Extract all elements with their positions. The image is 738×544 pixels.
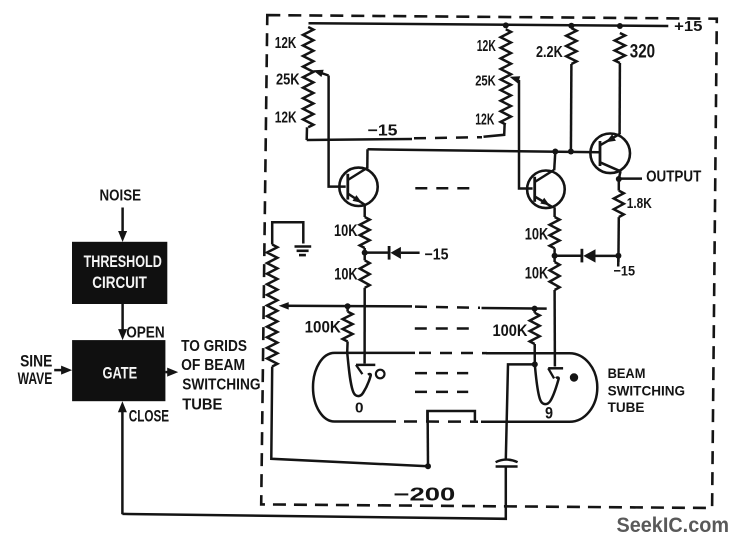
tube bottom edge dashes: [404, 420, 478, 423]
wire -15 row left segment: [307, 139, 412, 140]
wire right column down to tube electrode: [553, 290, 556, 367]
12K label left top: [275, 35, 297, 52]
resistor chain 12K 25K 12K right: [501, 29, 511, 124]
wire left column down to tube electrode: [363, 288, 366, 364]
OPEN label: [126, 325, 165, 342]
wire arrow gate output to grids: [165, 368, 178, 377]
NOISE label: [100, 188, 142, 205]
potentiometer left border: [267, 245, 277, 367]
10K label left upper: [334, 221, 358, 240]
svg-text:CLOSE: CLOSE: [129, 406, 169, 425]
resistor 2.2K: [566, 28, 576, 151]
svg-text:SWITCHING: SWITCHING: [608, 384, 686, 400]
electrode 0 cup: [347, 353, 371, 397]
wire pot bottom to -200 node: [271, 367, 428, 467]
svg-text:12K: 12K: [275, 35, 297, 52]
wire NOISE arrow into threshold circuit: [118, 208, 127, 243]
ground symbol: [295, 247, 312, 256]
10K label left lower: [334, 264, 357, 283]
svg-text:SINE: SINE: [20, 351, 52, 370]
diode D1: [365, 246, 420, 260]
svg-text:100K: 100K: [305, 317, 341, 336]
svg-text:BEAM: BEAM: [608, 366, 646, 382]
wiper arrow 25K left: [313, 70, 329, 77]
junction 10K/diode D2: [552, 248, 558, 262]
0 label: [355, 401, 364, 417]
svg-text:−15: −15: [425, 246, 449, 263]
wire output tap: [619, 177, 642, 180]
svg-text:−15: −15: [614, 263, 636, 279]
svg-text:−200: −200: [394, 484, 456, 505]
12K label right bottom: [475, 111, 495, 128]
svg-text:GATE: GATE: [103, 363, 138, 382]
junction -200 node: [425, 463, 431, 469]
capacitor C1: [496, 460, 518, 467]
junction Q2 collector / cross line: [552, 149, 558, 155]
dashes inside tube row 1: [415, 372, 468, 375]
svg-text:12K: 12K: [477, 38, 497, 55]
SeekIC.com watermark: [617, 513, 730, 537]
junction 100K right: [532, 306, 538, 312]
svg-text:25K: 25K: [276, 71, 300, 88]
dashes between Q1 and Q2: [415, 187, 474, 190]
svg-text:12K: 12K: [475, 111, 495, 128]
wire Q1 emitter down: [363, 205, 366, 217]
diode D2: [555, 249, 619, 263]
beam position indicator open circle: [376, 370, 385, 379]
wire -15 row dashes: [414, 137, 482, 138]
svg-text:NOISE: NOISE: [100, 188, 142, 205]
wire +15 supply rail: [309, 23, 669, 26]
dashes inside tube row 2: [415, 391, 468, 394]
svg-text:0: 0: [355, 401, 364, 417]
svg-text:100K: 100K: [493, 321, 528, 340]
block GATE: [72, 340, 165, 401]
wire SINE WAVE arrow into gate: [54, 366, 72, 375]
wire Q2 emitter down: [553, 207, 556, 217]
junction OUTPUT node: [616, 176, 622, 182]
svg-text:12K: 12K: [275, 110, 297, 127]
svg-text:OUTPUT: OUTPUT: [646, 169, 701, 186]
svg-text:SWITCHING: SWITCHING: [182, 377, 260, 394]
tube top edge dashes: [419, 352, 487, 355]
wire -15 row right segment: [484, 125, 505, 137]
svg-text:SeekIC.com: SeekIC.com: [617, 513, 730, 537]
beam switching tube envelope right: [481, 353, 597, 422]
electrode 0 bar: [356, 365, 375, 374]
svg-text:+15: +15: [674, 19, 702, 35]
svg-text:TUBE: TUBE: [608, 400, 645, 416]
svg-text:1.8K: 1.8K: [627, 196, 652, 212]
wire Q1 collector cross-couple to Q3 base: [368, 149, 601, 152]
25K label left: [276, 71, 300, 88]
resistor 10K left upper: [360, 217, 370, 248]
wire CLOSE arrow into gate bottom: [118, 401, 127, 514]
resistor 100K right: [530, 309, 540, 365]
beam position indicator filled dot: [570, 373, 578, 381]
wire tab down to -200 node: [426, 411, 429, 466]
wiper arrow on potentiometer: [279, 302, 412, 310]
junction 10K/diode D1: [362, 248, 368, 260]
wire pot top to ground: [272, 222, 303, 244]
svg-text:−15: −15: [368, 123, 398, 140]
junction 100K left: [345, 303, 351, 309]
beam switching tube envelope left: [313, 353, 415, 422]
wire OPEN arrow from threshold to gate: [118, 304, 127, 340]
svg-text:320: 320: [630, 41, 655, 62]
CLOSE label: [129, 406, 169, 425]
wire wiper row dashes: [415, 307, 480, 308]
transistor Q1: [339, 168, 377, 206]
svg-text:10K: 10K: [334, 264, 357, 283]
resistor 10K right upper: [550, 217, 560, 248]
svg-text:TO GRIDS: TO GRIDS: [181, 338, 247, 355]
100K label left: [305, 317, 341, 336]
OUTPUT label: [646, 169, 701, 186]
wire Q2 collector up: [554, 152, 555, 171]
9 label: [545, 404, 553, 423]
100K label right: [493, 321, 528, 340]
25K label right: [475, 73, 496, 90]
svg-text:OPEN: OPEN: [126, 325, 165, 342]
wiper arrow 25K right: [510, 76, 521, 83]
12K label left bottom: [275, 110, 297, 127]
wire Q3 collector to output node: [619, 171, 621, 179]
-15 label below 1.8K: [614, 263, 636, 279]
svg-text:10K: 10K: [525, 263, 549, 282]
BEAM SWITCHING TUBE label: [608, 366, 686, 416]
transistor Q2: [527, 170, 565, 208]
junction tube grid 9: [532, 361, 538, 367]
svg-text:THRESHOLD: THRESHOLD: [84, 253, 162, 271]
wire bottom return to capacitor: [122, 467, 505, 519]
-15 label row: [368, 123, 398, 140]
2.2K label: [536, 44, 563, 61]
-15 label at D1: [425, 246, 449, 263]
tube bottom tab: [427, 411, 475, 422]
SINE WAVE label: [18, 351, 53, 388]
svg-text:TUBE: TUBE: [182, 397, 222, 414]
junction 2.2K / cross line: [568, 149, 574, 155]
wire Q1 collector up: [366, 149, 369, 168]
320 label: [630, 41, 655, 62]
electrode 9 cup: [535, 364, 559, 404]
svg-text:WAVE: WAVE: [18, 369, 53, 388]
wire 25K wiper to Q1 base: [329, 76, 346, 187]
10K label right lower: [525, 263, 549, 282]
block THRESHOLD CIRCUIT: [72, 242, 167, 304]
svg-text:9: 9: [545, 404, 553, 423]
wire 25K wiper to Q2 base: [519, 80, 533, 189]
dashes row above 100K: [415, 327, 475, 330]
transistor Q3: [590, 134, 630, 174]
wire wiper row right segment: [482, 307, 547, 310]
wire Q3 emitter up to 320: [618, 132, 621, 135]
resistor 100K left: [343, 306, 353, 352]
-200 label: [394, 484, 456, 505]
svg-text:2.2K: 2.2K: [536, 44, 563, 61]
junction rail-2.2K: [568, 23, 574, 29]
wire grid9 junction to capacitor column: [506, 364, 535, 459]
svg-text:10K: 10K: [334, 221, 358, 240]
resistor 10K left lower: [360, 260, 370, 288]
resistor 1.8K: [614, 179, 624, 262]
wire stub below D2 junction: [617, 256, 620, 267]
TO GRIDS OF BEAM SWITCHING TUBE label: [181, 338, 260, 414]
+15 label: [674, 19, 702, 35]
10K label right upper: [525, 225, 549, 244]
1.8K label: [627, 196, 652, 212]
svg-text:25K: 25K: [475, 73, 496, 90]
svg-text:CIRCUIT: CIRCUIT: [92, 274, 147, 292]
svg-text:10K: 10K: [525, 225, 549, 244]
resistor 10K right lower: [550, 262, 560, 290]
junction 1.8K / diode D2: [615, 253, 621, 259]
resistor 320: [615, 33, 625, 134]
resistor chain 12K 25K 12K left: [303, 27, 313, 140]
12K label right top: [477, 38, 497, 55]
svg-text:OF BEAM: OF BEAM: [181, 357, 245, 374]
junction rail-320: [617, 23, 623, 29]
junction rail-12K right: [503, 22, 509, 28]
electrode 9 bar: [548, 368, 563, 378]
dashed enclosure border: [261, 15, 717, 508]
